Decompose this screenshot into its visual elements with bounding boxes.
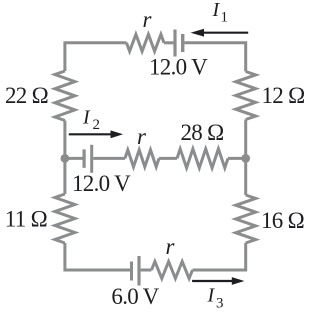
svg-text:6.0 V: 6.0 V xyxy=(111,284,159,309)
wire xyxy=(63,121,66,159)
battery top, short plate xyxy=(181,34,184,52)
wire top-right corner xyxy=(184,43,245,72)
svg-text:r: r xyxy=(143,7,153,32)
svg-text:r: r xyxy=(137,124,147,149)
svg-text:r: r xyxy=(166,234,176,259)
svg-text:12 Ω: 12 Ω xyxy=(262,83,305,108)
svg-text:3: 3 xyxy=(216,296,224,312)
wire xyxy=(159,157,177,160)
current arrow I3 xyxy=(192,280,232,282)
svg-text:I: I xyxy=(212,0,221,21)
battery bottom (6.0 V), short plate xyxy=(130,262,133,281)
resistor 16 ohm xyxy=(236,195,256,243)
resistor 22 ohm xyxy=(55,71,75,121)
svg-text:16 Ω: 16 Ω xyxy=(261,208,304,233)
battery bottom, long plate xyxy=(137,256,140,286)
battery middle (12.0 V), short plate xyxy=(83,149,86,167)
svg-text:I: I xyxy=(207,285,216,307)
battery top (12.0 V), long plate xyxy=(173,30,176,57)
resistor 12 ohm xyxy=(236,72,256,120)
resistor 11 ohm xyxy=(55,194,75,243)
wire xyxy=(164,41,173,44)
svg-text:11 Ω: 11 Ω xyxy=(5,207,47,232)
wire xyxy=(141,269,152,272)
resistor 28 ohm xyxy=(177,149,228,168)
resistor r (top) xyxy=(127,34,165,51)
wire middle-right xyxy=(228,157,246,160)
current arrow I2 xyxy=(69,133,112,135)
svg-text:2: 2 xyxy=(93,117,101,133)
wire xyxy=(244,120,247,159)
wire xyxy=(244,158,247,195)
resistor r (middle) xyxy=(125,150,159,167)
wire bottom-left corner xyxy=(65,243,130,270)
svg-text:I: I xyxy=(82,107,91,129)
wire top-left corner xyxy=(65,43,127,71)
svg-text:22 Ω: 22 Ω xyxy=(5,83,48,108)
resistor r (bottom) xyxy=(152,262,193,279)
wire xyxy=(63,158,66,194)
wire middle-left xyxy=(65,157,83,160)
wire bottom-right corner xyxy=(193,243,246,270)
current arrow I1 xyxy=(203,32,248,34)
junction node right xyxy=(241,154,250,163)
svg-text:28 Ω: 28 Ω xyxy=(180,120,223,145)
svg-text:1: 1 xyxy=(221,10,229,26)
svg-text:12.0 V: 12.0 V xyxy=(149,55,208,80)
junction node left xyxy=(61,154,70,163)
battery middle, long plate xyxy=(90,145,93,173)
svg-text:12.0 V: 12.0 V xyxy=(72,171,131,196)
wire xyxy=(93,157,125,160)
